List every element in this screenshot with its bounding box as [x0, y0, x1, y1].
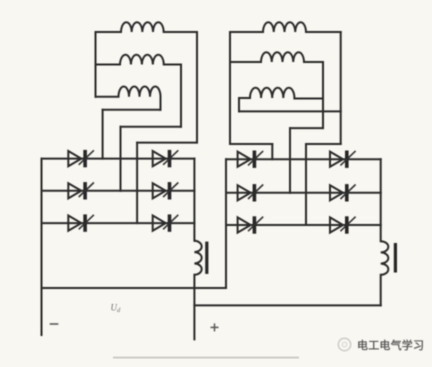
- inductor winding L2a (right group top coil): [263, 22, 306, 32]
- wire phase-b step: [121, 126, 182, 128]
- wire bridge1 row1: [42, 158, 195, 160]
- wire positive tie bus: [194, 304, 380, 306]
- thyristor V4 (bridge1 row2 right): [153, 182, 179, 199]
- wire bridge2 row2: [226, 192, 381, 194]
- wire negative tie bus: [42, 287, 227, 289]
- thyristor V2 (bridge1 row1 right): [153, 150, 179, 167]
- thyristor V11 (bridge2 row3 left): [238, 216, 264, 233]
- inductor smoothing reactor Ld1 coil: [194, 241, 201, 275]
- thyristor V6 (bridge1 row3 right): [153, 214, 179, 231]
- wire phase-c to bridge row1: [102, 110, 104, 159]
- thyristor V7 (bridge2 row1 left): [238, 151, 264, 168]
- thyristor V3 (bridge1 row2 left): [68, 182, 94, 199]
- reactor Ld2 core bar: [394, 243, 397, 273]
- thyristor V10 (bridge2 row2 right): [330, 184, 356, 201]
- wire delta node C drop: [340, 32, 342, 144]
- wire coil L2b right lead: [304, 61, 323, 63]
- wire node C link: [239, 110, 341, 112]
- thyristor V1 (bridge1 row1 left): [68, 150, 94, 167]
- inductor winding L1b (left group middle coil): [120, 55, 164, 65]
- wire node C step: [306, 143, 341, 145]
- wire coil L1a left lead: [96, 31, 122, 33]
- thyristor V8 (bridge2 row1 right): [330, 151, 356, 168]
- scan caption smudge: [113, 357, 299, 359]
- thyristor V5 (bridge1 row3 left): [68, 214, 94, 231]
- wire coil L2b left lead: [230, 61, 261, 63]
- wire bridge2 row1: [226, 158, 381, 160]
- inductor winding L2c (right group bottom coil): [250, 88, 294, 98]
- wire bridge1 row2: [42, 190, 195, 192]
- wire left group star bus: [95, 32, 97, 97]
- wire coil L2a right lead: [306, 31, 341, 33]
- wire node A step: [230, 143, 272, 145]
- wire bridge1 positive bus: [193, 159, 195, 241]
- wire phase-a step: [137, 142, 197, 144]
- wire bridge2 row3: [226, 224, 381, 226]
- wire phase-c step: [103, 109, 161, 111]
- wire coil L2c right lead: [294, 98, 323, 100]
- svg-text:电工电气学习: 电工电气学习: [357, 338, 424, 352]
- wire coil L1b right lead: [164, 64, 181, 66]
- wire phase-c drop inner: [160, 97, 162, 110]
- wire node A to bridge2 row1: [271, 144, 273, 159]
- wire node C to bridge2 row3: [305, 144, 307, 225]
- wire bridge1 negative bus / output lead: [41, 159, 43, 335]
- wire phase-a drop outer: [196, 32, 198, 143]
- wire phase-a to bridge row3: [136, 143, 138, 224]
- inductor smoothing reactor Ld2 coil: [381, 241, 389, 275]
- wire coil L1c left lead: [96, 96, 119, 98]
- wire coil L1a right lead: [164, 31, 197, 33]
- wire delta node A drop: [229, 32, 231, 144]
- wire reactor Ld1 output to + terminal: [193, 275, 195, 340]
- wire coil L2a left lead: [230, 31, 263, 33]
- wire delta node B drop: [322, 62, 324, 128]
- label minus terminal: [51, 323, 58, 325]
- thyristor V9 (bridge2 row2 left): [238, 184, 264, 201]
- watermark text: [357, 338, 424, 352]
- wire phase-b drop middle: [180, 65, 182, 127]
- thyristor V12 (bridge2 row3 right): [330, 216, 356, 233]
- label plus terminal: [211, 323, 219, 331]
- inductor winding L2b (right group middle coil): [261, 52, 304, 62]
- wire reactor Ld2 output drop: [380, 275, 382, 306]
- inductor winding L1c (left group bottom coil): [119, 87, 161, 97]
- inductor winding L1a (left group top coil): [121, 22, 164, 32]
- wire coil L1b left lead: [96, 64, 121, 66]
- wire bridge1 row3: [42, 222, 195, 224]
- wire node B to bridge2 row2: [289, 128, 291, 193]
- wire coil L2c left lead: [239, 97, 250, 99]
- watermark logo circle: [338, 338, 350, 350]
- wire phase-b to bridge row2: [120, 127, 122, 191]
- reactor Ld1 core bar: [205, 242, 208, 274]
- wire node B step: [290, 127, 323, 129]
- wire bridge2 positive bus: [380, 159, 382, 241]
- wire coil L2c drop: [238, 98, 240, 111]
- wire bridge2 negative bus: [225, 159, 227, 288]
